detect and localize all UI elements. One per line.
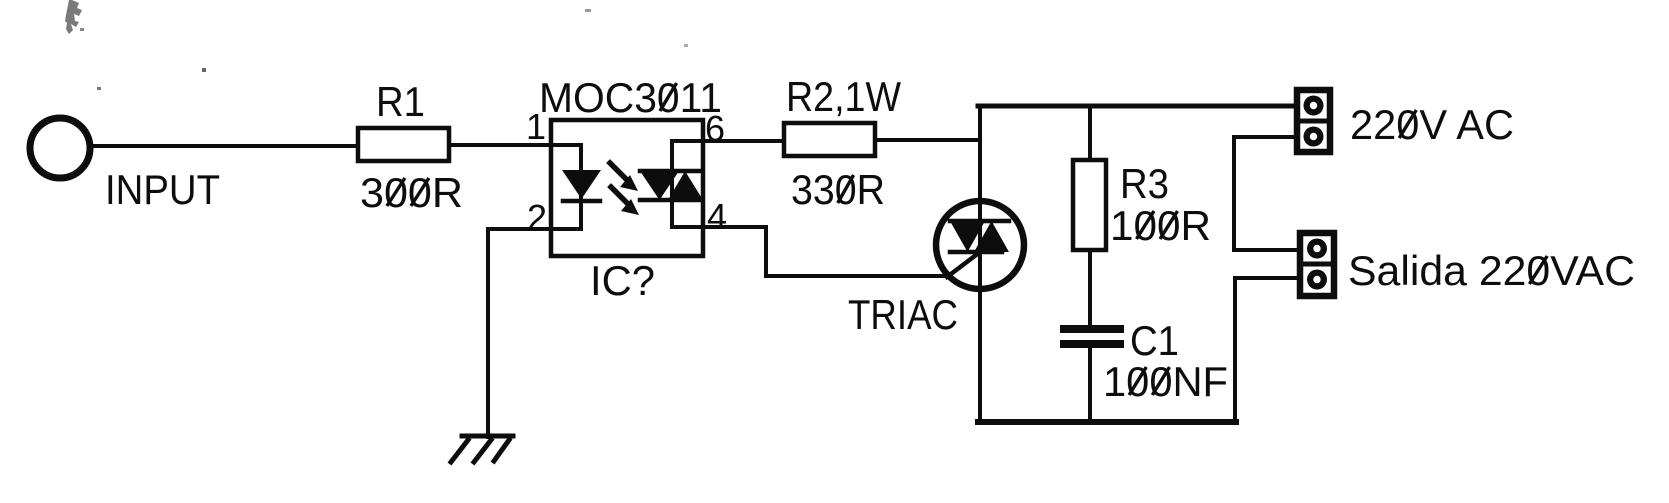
wire R3 branch from top rail xyxy=(1088,106,1092,160)
svg-text:R3: R3 xyxy=(1120,160,1169,207)
wire pin6 to R2 xyxy=(703,139,784,143)
wire top rail xyxy=(978,104,1297,109)
wire connector J2 lower pin to bottom rail xyxy=(1235,278,1300,422)
svg-text:330R: 330R xyxy=(791,166,885,213)
input terminal circle xyxy=(30,118,90,178)
connector J1 220V AC xyxy=(1297,90,1330,152)
resistor R3 xyxy=(1073,160,1106,250)
slashed zero marks xyxy=(387,83,1547,395)
wire pin4 to triac gate xyxy=(703,227,950,276)
svg-text:R2,1W: R2,1W xyxy=(786,73,901,120)
svg-text:R1: R1 xyxy=(376,78,425,125)
photo-triac inside optocoupler xyxy=(640,141,703,227)
wire bottom rail xyxy=(978,419,1236,425)
triac Q1 xyxy=(936,106,1024,422)
svg-text:100NF: 100NF xyxy=(1103,358,1228,405)
wire pin2 to ground xyxy=(488,229,551,437)
connector J2 Salida xyxy=(1300,233,1334,296)
resistor R2 xyxy=(784,123,875,156)
scan noise marks xyxy=(65,0,688,90)
svg-text:1: 1 xyxy=(526,106,546,147)
wire R3 to C1 xyxy=(1088,250,1092,325)
svg-text:C1: C1 xyxy=(1130,317,1179,364)
wire to connector J1 lower pin xyxy=(1234,137,1300,250)
capacitor C1 xyxy=(1064,329,1120,344)
wire pin4 stub xyxy=(672,225,703,229)
svg-text:4: 4 xyxy=(707,196,727,237)
svg-text:6: 6 xyxy=(705,108,725,149)
LED diode of optocoupler xyxy=(562,170,601,201)
wire pin6 stub xyxy=(672,139,703,143)
svg-text:TRIAC: TRIAC xyxy=(848,291,958,338)
svg-text:Salida 220VAC: Salida 220VAC xyxy=(1348,247,1635,294)
light emission arrows xyxy=(610,163,639,215)
ground xyxy=(451,436,513,462)
wire LED vertical xyxy=(579,145,583,229)
wire pin1 internal stub xyxy=(551,143,581,147)
svg-text:MOC3011: MOC3011 xyxy=(539,74,722,121)
svg-text:IC?: IC? xyxy=(590,257,655,304)
svg-text:100R: 100R xyxy=(1110,202,1211,249)
svg-text:2: 2 xyxy=(527,197,547,238)
svg-text:INPUT: INPUT xyxy=(105,166,220,213)
svg-text:300R: 300R xyxy=(360,169,463,216)
wire R2 to triac node xyxy=(875,138,980,142)
wire C1 to bottom rail xyxy=(1088,348,1092,422)
wire R1 to optocoupler pin 1 xyxy=(449,143,551,147)
resistor R1 xyxy=(358,128,449,161)
wire pin2 internal stub xyxy=(551,227,581,231)
op-amp U1 MOC3011 box xyxy=(551,120,703,256)
svg-text:220V AC: 220V AC xyxy=(1350,101,1514,148)
wire input to R1 xyxy=(93,144,358,148)
